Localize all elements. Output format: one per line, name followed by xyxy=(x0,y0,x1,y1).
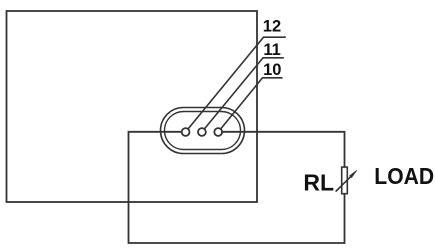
leader wire to label 10 xyxy=(221,78,282,129)
wire: left lead from connector to bottom loop xyxy=(129,132,345,243)
pin 10 (right contact) xyxy=(214,128,222,136)
outer enclosure rectangle xyxy=(7,11,258,202)
leader wire to label 12 xyxy=(188,37,285,129)
connector J1 outer outline xyxy=(161,108,245,154)
svg-text:RL: RL xyxy=(303,170,334,196)
pin 11 (middle contact) xyxy=(198,128,206,136)
svg-text:11: 11 xyxy=(263,41,280,59)
resistor RL body xyxy=(342,167,348,194)
svg-text:10: 10 xyxy=(263,61,281,79)
connector J1 inner outline xyxy=(165,112,241,150)
wire: right lead from pin 10 to load branch xyxy=(222,132,344,167)
leader wire to label 11 xyxy=(204,58,283,129)
svg-text:LOAD: LOAD xyxy=(374,163,434,189)
resistor RL arrow head xyxy=(350,170,357,177)
svg-text:12: 12 xyxy=(263,18,281,36)
resistor RL variable arrow xyxy=(336,175,352,191)
pin 12 (left contact) xyxy=(182,128,190,136)
